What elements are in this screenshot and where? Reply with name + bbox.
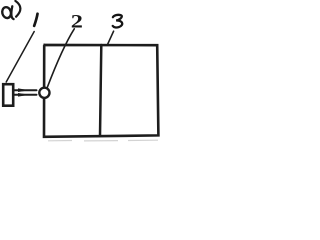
leader line to 1 — [6, 32, 34, 83]
faint scan artifact dash right — [128, 139, 158, 141]
fan circle 2 — [39, 88, 49, 98]
label 3 — [113, 15, 123, 28]
divider wall inside box 3 — [100, 45, 101, 136]
label a) : bowl of italic a — [1, 6, 12, 19]
leader line to 3 — [107, 31, 113, 45]
shaft upper arrowhead — [18, 88, 30, 92]
shaft upper line — [15, 89, 37, 91]
motor box 1 — [3, 84, 13, 106]
svg-text:2: 2 — [71, 11, 83, 32]
shaft lower arrowhead — [18, 93, 30, 97]
label a) : stem of italic a — [11, 6, 13, 19]
faint scan artifact dash middle — [84, 140, 118, 142]
label 1 (drawn stroke) — [34, 14, 37, 26]
shaft lower line — [15, 94, 37, 96]
leader line to 2 — [47, 29, 74, 88]
faint scan artifact dash left — [48, 140, 72, 142]
chamber box 3 (outline) — [44, 45, 159, 137]
label a) : closing paren — [15, 1, 20, 17]
label 2 — [71, 11, 83, 32]
